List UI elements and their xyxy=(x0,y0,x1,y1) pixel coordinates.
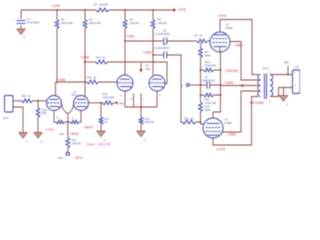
ground symbol (R15) xyxy=(137,131,145,137)
wire V1b cathode xyxy=(79,111,81,122)
wire lower coupling row to C5 xyxy=(153,54,163,56)
wire direct coupling V1b plate to V2b grid xyxy=(85,61,96,63)
wire direct coupling V1a plate to V2a grid xyxy=(57,81,87,83)
heater pin V2b xyxy=(140,94,142,108)
resistor R19 1k (lower grid stopper) xyxy=(182,120,196,124)
wire R10 to V1a grid xyxy=(33,100,48,102)
wire lower cathode jog xyxy=(213,95,221,118)
junction V1b plate to grid wire xyxy=(84,61,86,63)
svg-text:U1: U1 xyxy=(226,23,230,27)
wire ground stub secondary xyxy=(283,88,285,96)
resistor R6 380K (upper grid leak) xyxy=(199,48,203,58)
svg-text:FB1: FB1 xyxy=(284,61,289,65)
secondary winding xyxy=(270,75,273,97)
ground symbol (C1) xyxy=(17,29,25,35)
svg-text:+289: +289 xyxy=(224,80,234,85)
resistor R10 1k (input series) xyxy=(22,99,33,103)
junction bias/R12s xyxy=(200,94,202,96)
net arrow (heater net, red) xyxy=(140,63,142,69)
svg-text:R11 1k: R11 1k xyxy=(87,76,97,80)
wire U1 cathode column xyxy=(219,47,222,95)
svg-text:R17: R17 xyxy=(105,117,110,121)
svg-text:+283: +283 xyxy=(234,43,244,48)
wire R11 to V2a grid xyxy=(99,81,117,83)
wire R21 to -56V terminal xyxy=(67,148,69,153)
svg-text:10k/2W: 10k/2W xyxy=(158,21,168,25)
wire grid leak column xyxy=(37,101,39,108)
svg-text:47uF/400V: 47uF/400V xyxy=(27,21,40,25)
ground symbol (secondary) xyxy=(279,96,287,102)
junction input grid node xyxy=(37,100,39,102)
triode V2a (driver, left) xyxy=(117,75,133,91)
wire R17 to ground xyxy=(100,125,102,132)
wire plate feed column V2b xyxy=(152,10,154,20)
wire B+ to OPT center tap xyxy=(221,85,259,87)
junction V2a plate coupling xyxy=(124,40,126,42)
terminal -56V xyxy=(66,153,69,156)
svg-text:6SL7: 6SL7 xyxy=(72,93,79,97)
pentode U1 (upper output tube) xyxy=(210,32,230,52)
junction top rail at R4 xyxy=(124,9,126,11)
junction feedback divider xyxy=(100,102,102,104)
svg-text:470/0.5W: 470/0.5W xyxy=(205,63,217,67)
svg-text:LS1: LS1 xyxy=(294,65,299,69)
junction cathode/R12s xyxy=(220,94,222,96)
svg-text:V2: V2 xyxy=(146,63,150,67)
wire U1 screen to OPT UL tap xyxy=(230,42,258,81)
wire RCA pin1 to R10 xyxy=(13,100,22,102)
wire B+ rail left segment (+229 net) xyxy=(21,9,96,11)
wire plate feed column V1b xyxy=(84,10,86,20)
svg-text:6U8M: 6U8M xyxy=(226,26,234,30)
svg-text:-56V: -56V xyxy=(58,156,64,160)
ground symbol (R17) xyxy=(97,131,105,137)
svg-text:R2: R2 xyxy=(61,17,65,21)
junction top rail at R5 xyxy=(152,9,154,11)
resistor R1 10k/2W (series dropper on B+ rail) xyxy=(96,8,109,12)
svg-text:68K/0.5W: 68K/0.5W xyxy=(61,21,73,25)
wire R16 to ground xyxy=(37,118,39,133)
svg-text:R15: R15 xyxy=(145,117,150,121)
svg-text:R1 10k/2W: R1 10k/2W xyxy=(94,3,109,7)
junction bias/R10s xyxy=(200,69,202,71)
wire C5 down to lower grid row xyxy=(167,55,182,122)
wire R15 to ground xyxy=(140,125,142,132)
wire tail V2 to R15 xyxy=(140,107,142,117)
capacitor C5 0.22uF/250V xyxy=(164,52,167,59)
wire R7 to U1 grid xyxy=(208,40,211,42)
wire U2 plate to OPT pin3 xyxy=(213,97,258,146)
junction lower grid node xyxy=(200,121,202,123)
svg-text:.068uF/63V: .068uF/63V xyxy=(202,78,216,82)
junction tail node xyxy=(67,121,69,123)
wire FB1 drop xyxy=(287,66,289,75)
svg-text:R3: R3 xyxy=(89,17,93,21)
capacitor C4 xyxy=(201,84,221,86)
wire bias column mid xyxy=(200,58,202,103)
svg-text:C1: C1 xyxy=(27,17,31,21)
svg-text:R4: R4 xyxy=(130,17,134,21)
wire plate feed column V2a xyxy=(124,10,126,20)
svg-text:RCA: RCA xyxy=(3,116,9,120)
wire coupling row to C3 xyxy=(125,40,163,42)
resistor R13 1k (grid stopper V2b) xyxy=(96,60,108,64)
wire connector a to bias column xyxy=(189,84,200,86)
svg-text:R18: R18 xyxy=(205,105,210,109)
wire V2a cathode xyxy=(124,91,126,107)
wire tail to R21 xyxy=(67,122,69,138)
resistor R16 68K (grid leak) xyxy=(36,108,40,118)
ground symbol (R16) xyxy=(34,133,42,139)
svg-text:+279: +279 xyxy=(216,146,226,151)
junction top rail at R3 xyxy=(84,9,86,11)
wire R19 to U2 grid xyxy=(196,122,204,124)
triode V1a (6SL7 input, left) xyxy=(47,96,62,111)
svg-text:+148: +148 xyxy=(56,77,66,82)
svg-text:+15V33: +15V33 xyxy=(224,68,239,73)
junction top rail at R2 xyxy=(56,9,58,11)
power diamond +148a xyxy=(56,81,59,84)
svg-text:+3V6: +3V6 xyxy=(69,131,79,136)
svg-text:+8V4: +8V4 xyxy=(84,124,94,129)
power diamond +148b xyxy=(84,61,87,64)
resistor R10s 470/0.5W (upper cathode) xyxy=(201,69,221,71)
svg-text:OPT1: OPT1 xyxy=(262,67,270,71)
svg-text:R13 1k: R13 1k xyxy=(96,56,106,60)
junction V2b plate coupling xyxy=(152,54,154,56)
svg-text:R10 1k: R10 1k xyxy=(22,94,32,98)
power port diamond +270 xyxy=(172,8,176,12)
svg-text:R21: R21 xyxy=(72,138,77,142)
svg-text:380K: 380K xyxy=(205,108,211,112)
svg-text:R5: R5 xyxy=(158,17,162,21)
svg-text:V1: V1 xyxy=(73,90,77,94)
wire R18 to lower grid node xyxy=(200,112,202,122)
wire plate feed column V1a xyxy=(56,10,58,20)
svg-text:R12: R12 xyxy=(205,98,210,102)
svg-text:6U8M: 6U8M xyxy=(225,121,233,125)
svg-text:470/0.5W: 470/0.5W xyxy=(205,101,217,105)
resistor R4 10k/2W xyxy=(123,20,127,29)
wire cathode bus V2 xyxy=(125,106,157,108)
svg-text:+7V1: +7V1 xyxy=(45,127,55,132)
resistor R18 380K (lower grid leak) xyxy=(199,102,203,112)
svg-text:+229: +229 xyxy=(51,3,61,8)
svg-text:+279: +279 xyxy=(217,13,227,18)
wire B+ rail right segment (+270 net) xyxy=(109,9,172,11)
wire V1b grid to feedback divider xyxy=(88,102,103,104)
ground symbol (RCA shield) xyxy=(19,133,27,139)
heater pins V1 (wishbone) xyxy=(62,105,74,123)
svg-text:+160: +160 xyxy=(143,50,153,55)
wire C1 stem from rail xyxy=(20,10,22,19)
resistor R16 22K/0.5W (feedback) xyxy=(103,101,114,105)
svg-text:thay = 33K/2W: thay = 33K/2W xyxy=(87,143,111,147)
pentode U2 (lower output tube) xyxy=(203,118,223,138)
wire R2 to plate node +148 xyxy=(56,29,58,83)
svg-text:9K/10W: 9K/10W xyxy=(250,100,264,105)
core xyxy=(264,74,266,100)
svg-text:380K: 380K xyxy=(205,53,211,57)
svg-text:U2: U2 xyxy=(225,118,229,122)
svg-text:+160: +160 xyxy=(126,34,136,39)
svg-text:22K/2W: 22K/2W xyxy=(145,120,155,124)
resistor R21 47K/2W (tail) xyxy=(66,138,70,149)
wire R4 to V2a plate xyxy=(124,29,126,76)
svg-text:R6: R6 xyxy=(205,50,209,54)
wire secondary top to speaker xyxy=(270,74,293,76)
connector J1 RCA input xyxy=(5,96,14,113)
svg-text:68K: 68K xyxy=(42,111,47,115)
svg-text:R10: R10 xyxy=(205,60,210,64)
svg-text:6N2: 6N2 xyxy=(146,67,151,71)
wire V1a cathode xyxy=(54,111,56,122)
wire R13 over to V2b grid (right side) xyxy=(108,62,168,84)
resistor R12s 470/0.5W (lower cathode) xyxy=(201,94,221,96)
svg-text:-37V: -37V xyxy=(74,155,83,160)
primary winding xyxy=(258,75,261,97)
svg-text:47K/2W: 47K/2W xyxy=(72,142,82,146)
wire V2b cathode xyxy=(156,91,158,107)
resistor R3 68K/0.5W xyxy=(83,20,87,29)
wire U2 screen to OPT UL tap xyxy=(223,91,259,132)
svg-text:C5: C5 xyxy=(163,43,167,47)
wire bias column x200 xyxy=(200,43,202,48)
wire U1 plate to OPT pin4 xyxy=(220,20,258,75)
wire secondary bottom to speaker pin2 xyxy=(270,88,293,97)
resistor R2 68K/0.5W xyxy=(55,20,59,29)
svg-text:C4: C4 xyxy=(205,75,209,79)
wire C1 to ground xyxy=(20,25,22,29)
resistor RK2 (cathode, right) xyxy=(71,120,80,123)
junction cathode/C4 xyxy=(220,84,222,86)
resistor R11 1k (grid stopper V2a) xyxy=(87,80,99,84)
wire C3 to grid stopper R7 xyxy=(167,40,197,42)
net arrow FB1 xyxy=(115,101,118,105)
svg-text:U6A: U6A xyxy=(59,132,64,136)
wire R16fb to FB1 port xyxy=(114,102,118,104)
wire R5 to V2b plate xyxy=(152,29,154,76)
svg-text:68K/0.5W: 68K/0.5W xyxy=(89,21,101,25)
svg-text:+148: +148 xyxy=(80,55,90,60)
junction cathode/R10s xyxy=(220,69,222,71)
svg-text:R7 1k: R7 1k xyxy=(195,34,203,38)
triode V2b (driver, right) xyxy=(149,75,165,91)
connector LS1 speaker xyxy=(293,70,301,94)
svg-text:+270: +270 xyxy=(177,7,187,12)
resistor R15 22K/2W (tail) xyxy=(139,117,143,125)
transformer OPT1 xyxy=(256,74,273,100)
svg-text:R16: R16 xyxy=(42,108,47,112)
resistor RK1 (cathode, left) xyxy=(56,120,65,123)
capacitor C1 47uF/400V (polarized filter cap) xyxy=(17,21,26,24)
primary tap stubs xyxy=(256,75,258,97)
junction bias/C4 xyxy=(200,84,202,86)
svg-text:10k/2W: 10k/2W xyxy=(130,21,140,25)
resistor R5 10k/2W xyxy=(151,20,155,29)
junction tail V2 xyxy=(140,106,142,108)
heater pin V2a xyxy=(133,94,135,108)
wire RCA shield to ground xyxy=(13,107,23,133)
connector a (B+ feed) xyxy=(186,84,189,87)
svg-text:R16: R16 xyxy=(103,92,108,96)
capacitor C3 0.22uF/250V xyxy=(164,38,167,45)
wire V1a plate stub xyxy=(55,82,57,96)
svg-text:FB1: FB1 xyxy=(119,101,124,105)
resistor R7 1k (upper grid stopper) xyxy=(197,39,208,43)
svg-text:R19 1k: R19 1k xyxy=(184,116,194,120)
svg-text:0.22uF/250V: 0.22uF/250V xyxy=(155,46,171,50)
power diamond +289 xyxy=(241,84,244,87)
wire R3 down to V1b plate xyxy=(84,29,86,97)
wire cathode bus center xyxy=(65,121,71,123)
resistor R17 1k (feedback shunt) xyxy=(100,103,102,117)
junction FB tap xyxy=(287,74,289,76)
svg-text:0.22uF/250V: 0.22uF/250V xyxy=(155,32,171,36)
svg-text:C3: C3 xyxy=(163,29,167,33)
triode V1b (6SL7 input, right) xyxy=(74,96,89,111)
svg-text:22K/0.5W: 22K/0.5W xyxy=(103,96,115,100)
